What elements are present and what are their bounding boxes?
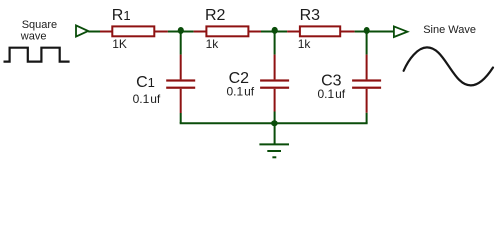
resistor R3 <box>300 26 340 36</box>
wire C3 to bus <box>366 113 368 124</box>
svg-text:wave: wave <box>20 30 47 42</box>
resistor R1 <box>112 26 154 36</box>
wire C2 to bus <box>274 112 276 124</box>
wire node B down <box>274 32 276 55</box>
pin C3 bottom <box>366 89 368 113</box>
svg-text:C1: C1 <box>136 74 155 91</box>
ground junction dot <box>271 120 278 126</box>
input buffer triangle <box>76 25 88 36</box>
ground <box>259 144 289 157</box>
wire node C down <box>366 32 368 55</box>
svg-text:R2: R2 <box>205 7 226 24</box>
pin R3 right <box>340 31 354 33</box>
svg-text:R1: R1 <box>112 7 131 24</box>
square wave glyph <box>4 48 70 62</box>
svg-text:Square: Square <box>22 19 57 31</box>
output buffer triangle <box>394 26 408 37</box>
svg-text:1K: 1K <box>112 37 127 51</box>
pin C1 top <box>180 55 182 80</box>
wire node A down <box>180 32 182 55</box>
svg-text:0.1uf: 0.1uf <box>318 87 346 101</box>
wire R2 to R3 <box>261 31 287 33</box>
svg-text:1k: 1k <box>298 37 312 51</box>
pin C3 top <box>366 55 368 80</box>
pin R3 left <box>287 31 300 33</box>
pin C2 bottom <box>274 89 276 112</box>
resistor R2 <box>206 26 248 36</box>
wire to ground <box>274 123 276 144</box>
label Square wave <box>20 19 57 42</box>
wire R3 to output <box>355 31 394 33</box>
pin C1 bottom <box>180 89 182 113</box>
pin C2 top <box>274 55 276 80</box>
svg-text:1k: 1k <box>206 37 220 51</box>
capacitor C1 <box>166 79 195 88</box>
svg-text:0.1uf: 0.1uf <box>133 92 161 106</box>
capacitor C2 <box>260 79 289 88</box>
sine wave glyph <box>404 47 493 85</box>
wire input to R1 <box>88 31 100 33</box>
wire R1 to R2 <box>168 31 194 33</box>
pin R2 right <box>248 31 261 33</box>
svg-text:R3: R3 <box>300 7 321 24</box>
capacitor C3 <box>352 79 381 88</box>
pin R2 left <box>194 31 207 33</box>
pin R1 left <box>100 31 112 33</box>
svg-text:0.1uf: 0.1uf <box>227 85 255 99</box>
node C junction dot <box>364 27 370 34</box>
node A junction dot <box>178 27 184 34</box>
svg-text:Sine Wave: Sine Wave <box>423 24 476 36</box>
pin R1 right <box>154 31 168 33</box>
wire C1 to bus <box>180 113 182 123</box>
bottom bus wire <box>180 122 368 124</box>
node B junction dot <box>272 27 278 34</box>
